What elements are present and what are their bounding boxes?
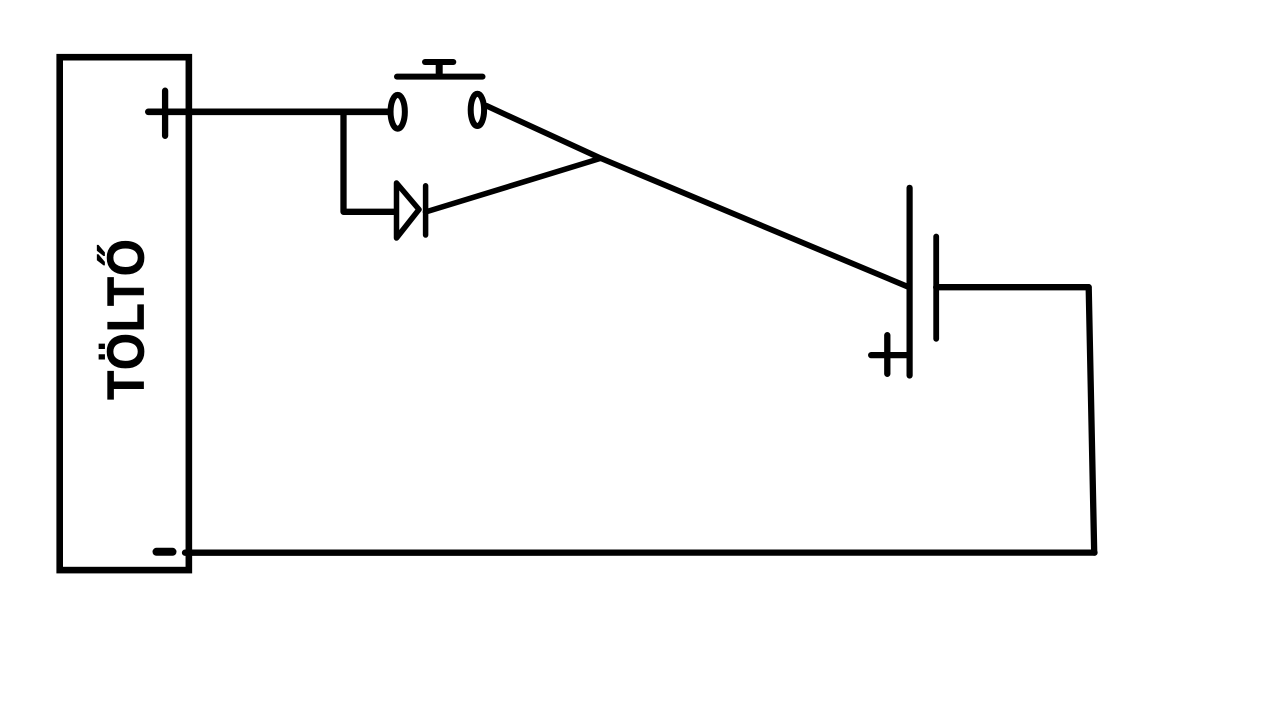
wire junction drop to diode branch [344, 112, 396, 212]
diode D1 triangle [397, 183, 420, 238]
wire bottom return to charger minus [185, 549, 1095, 555]
switch S1 right contact [471, 94, 484, 126]
wire from plus terminal to switch [148, 109, 389, 116]
minus terminal of charger [157, 548, 173, 556]
wire from switch right contact through node A to battery [487, 106, 909, 287]
svg-text:TÖLTŐ: TÖLTŐ [96, 238, 155, 399]
wire from diode cathode to node A [426, 159, 601, 213]
charger box U1 (TÖLTŐ) [60, 57, 189, 570]
switch S1 plunger stub [436, 62, 443, 78]
battery B1 plus label [884, 335, 890, 374]
plus terminal of charger [162, 91, 168, 136]
diode D1 cathode bar [423, 186, 429, 235]
wire from battery to right corner [936, 284, 1088, 290]
switch S1 actuator bar [397, 74, 483, 80]
battery B1 negative short plate [933, 237, 939, 339]
switch S1 button cap [425, 59, 453, 65]
battery B1 positive long plate [906, 188, 912, 376]
switch S1 left contact [391, 95, 405, 129]
wire right vertical segment [1089, 287, 1095, 552]
